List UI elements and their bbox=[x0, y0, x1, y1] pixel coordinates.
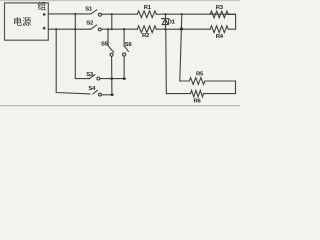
switch S6 feeder bbox=[123, 29, 125, 46]
svg-text:组: 组 bbox=[37, 1, 46, 12]
wire loop right side bbox=[235, 81, 237, 94]
terminal dot bottom bbox=[43, 27, 46, 30]
border top bbox=[0, 0, 240, 2]
wire bottom row S2 to R2 bbox=[101, 28, 137, 30]
wire vertical link x111.8 bbox=[111, 14, 113, 29]
wire S4 row to S5 bbox=[101, 94, 113, 96]
node S3row end S6 bbox=[123, 77, 126, 80]
wire vertical x56 to S4 elbow bbox=[56, 29, 90, 94]
node J2 bbox=[55, 28, 57, 30]
border bottom bbox=[0, 105, 240, 107]
diode branch vertical bbox=[165, 14, 167, 29]
node x181.5 bottom junction bbox=[180, 27, 183, 30]
resistor R5 bbox=[180, 78, 236, 85]
wire vertical x181.5 to R5 row bbox=[180, 14, 182, 81]
svg-text:R2: R2 bbox=[142, 33, 150, 39]
resistor R4 bbox=[210, 26, 228, 33]
svg-text:S3: S3 bbox=[86, 72, 94, 78]
wire S6 lower vertical bbox=[123, 56, 125, 78]
resistor R6 bbox=[166, 90, 235, 96]
diode D1 bbox=[162, 18, 169, 20]
svg-text:R1: R1 bbox=[144, 5, 152, 11]
switch S5 feeder bbox=[107, 29, 109, 45]
wire top row R1 to R3 bbox=[156, 13, 235, 15]
svg-text:R6: R6 bbox=[194, 98, 202, 104]
switch S5 blade bbox=[108, 46, 114, 53]
resistor R3 bbox=[210, 11, 228, 18]
switch S6 blade bbox=[124, 46, 128, 52]
svg-text:S1: S1 bbox=[85, 6, 93, 12]
resistor R1 bbox=[137, 11, 156, 18]
resistor R2 bbox=[137, 26, 156, 33]
svg-text:S2: S2 bbox=[86, 20, 94, 26]
power supply box bbox=[5, 3, 49, 40]
node S3row x S5 bbox=[110, 77, 113, 80]
terminal dot top bbox=[43, 13, 46, 16]
switch S3 contact bbox=[97, 77, 100, 80]
svg-text:S6: S6 bbox=[125, 42, 133, 48]
wire bottom row R2 to R4 bbox=[156, 28, 210, 30]
node S4row x S5 bbox=[111, 93, 114, 96]
wire vertical x166 to R6 loop bbox=[165, 29, 168, 93]
svg-text:D1: D1 bbox=[168, 20, 176, 26]
svg-text:S4: S4 bbox=[88, 86, 96, 92]
wire S3 row to S6 bbox=[100, 78, 126, 80]
svg-text:电源: 电源 bbox=[13, 16, 31, 27]
wire top row S1 to R1 bbox=[101, 13, 137, 15]
node diode bottom bbox=[164, 28, 166, 30]
switch S4 contact bbox=[99, 93, 102, 96]
wire vertical x75 to S3 elbow bbox=[75, 14, 89, 79]
switch S1 bbox=[91, 10, 97, 14]
svg-text:R3: R3 bbox=[216, 5, 224, 11]
svg-text:S5: S5 bbox=[101, 42, 109, 48]
svg-text:R4: R4 bbox=[216, 34, 224, 40]
node top of link bbox=[111, 13, 113, 15]
node x181.5 top bbox=[181, 13, 183, 15]
svg-text:R5: R5 bbox=[196, 72, 204, 78]
switch S2 bbox=[91, 25, 97, 29]
node J1 top bbox=[74, 13, 76, 15]
node S6 feeder tap bbox=[123, 28, 125, 30]
node diode top bbox=[164, 13, 166, 15]
node J1b cross bbox=[74, 28, 76, 30]
switch S6 contact bbox=[123, 53, 126, 56]
wire right edge R3-R4 bbox=[228, 14, 235, 29]
switch S3 blade bbox=[89, 75, 95, 79]
wire bottom row from box to S2 bbox=[48, 28, 91, 30]
wire S5 lower vertical bbox=[111, 56, 113, 95]
wire top row from box to S1 bbox=[48, 13, 91, 15]
switch S5 contact bbox=[110, 53, 113, 56]
node bottom of link bbox=[111, 28, 113, 30]
switch S4 blade bbox=[93, 90, 98, 94]
